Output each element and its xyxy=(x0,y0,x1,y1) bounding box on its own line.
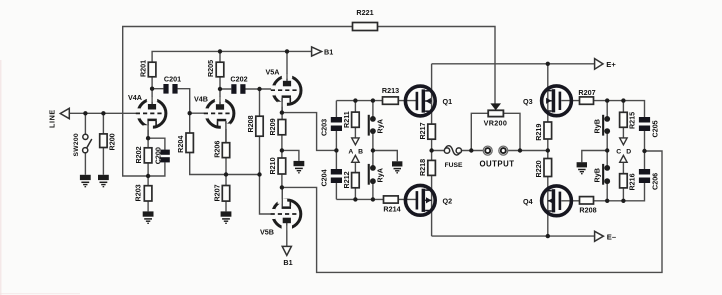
wire Q1 drain column / E+ feed xyxy=(431,64,433,124)
svg-text:VR200: VR200 xyxy=(484,119,507,128)
wire R201 to V4A plate xyxy=(151,77,153,104)
svg-text:R211: R211 xyxy=(342,111,351,128)
resistor R207 right xyxy=(578,88,595,105)
svg-text:OUTPUT: OUTPUT xyxy=(479,160,514,169)
wire V5A cathode to R209 xyxy=(281,98,283,120)
resistor R208 right xyxy=(579,197,596,215)
svg-text:R214: R214 xyxy=(383,204,400,213)
svg-text:FUSE: FUSE xyxy=(445,162,463,169)
resistor R218 xyxy=(418,159,436,176)
svg-text:E+: E+ xyxy=(606,60,616,69)
svg-text:RyB: RyB xyxy=(593,119,602,133)
wire C204 stems xyxy=(335,150,337,199)
wire RyA mute ground branch xyxy=(373,151,397,162)
svg-text:R208: R208 xyxy=(579,206,596,215)
wire C205 stem to mid node xyxy=(644,131,646,151)
wire bottom right rail R208 to C206 xyxy=(594,183,645,201)
wire R208 grid chain to V5B xyxy=(260,89,273,214)
wire R215 to test point C xyxy=(622,101,624,138)
wire R209 R210 node xyxy=(281,135,283,188)
svg-text:C200: C200 xyxy=(154,147,163,164)
resistor R215 xyxy=(620,112,637,129)
resistor R214 xyxy=(383,196,400,213)
capacitor C200 xyxy=(154,147,170,164)
capacitor C206 xyxy=(639,169,660,190)
svg-text:LINE: LINE xyxy=(48,109,57,128)
svg-text:C201: C201 xyxy=(164,75,181,84)
wire signal to C203/C204 midpoint xyxy=(282,113,337,151)
resistor R219 xyxy=(534,122,552,141)
wire V4B cathode chain xyxy=(226,121,260,211)
wire bottom mid rail to R214 xyxy=(336,198,416,200)
svg-text:R212: R212 xyxy=(342,171,351,188)
wire Q3 drain column xyxy=(547,64,549,122)
svg-text:B1: B1 xyxy=(324,47,333,56)
wire V5A plate to B1 rail xyxy=(286,51,288,80)
node test point C arrow xyxy=(620,138,627,145)
relay contact RyB upper xyxy=(593,115,611,136)
tube V5B inverted xyxy=(260,187,301,236)
svg-text:C205: C205 xyxy=(651,120,660,137)
wire RyB column segments xyxy=(606,101,608,201)
transistor Q1 xyxy=(405,86,452,116)
wire C206 stem to mid node xyxy=(644,151,646,169)
wire E- rail xyxy=(432,235,596,237)
node test point A arrow xyxy=(352,138,359,145)
node test point D arrow xyxy=(620,155,627,162)
wire E+ rail xyxy=(432,63,595,65)
wire Q3 source to R219 R220 Q4 xyxy=(547,139,549,236)
node B1 arrow top xyxy=(312,47,334,56)
svg-text:C D: C D xyxy=(616,149,633,156)
wire C201 coupling to V4B grid xyxy=(152,89,206,114)
wire ground branch V5A cathode divider xyxy=(282,150,299,161)
relay contact RyB lower xyxy=(593,164,611,185)
svg-text:R221: R221 xyxy=(356,8,373,17)
svg-text:V4A: V4A xyxy=(128,93,142,102)
node test point B arrow xyxy=(352,155,359,162)
svg-text:SW200: SW200 xyxy=(73,133,80,156)
resistor R211 xyxy=(342,111,359,128)
relay contact RyA lower xyxy=(368,164,385,185)
capacitor C203 xyxy=(320,117,342,136)
resistor R221 xyxy=(353,8,378,31)
svg-text:RyA: RyA xyxy=(376,168,385,182)
wire R204 branch xyxy=(190,113,226,174)
ground (V5A cathode divider) xyxy=(294,161,305,173)
wire V5B cathode up xyxy=(281,187,283,206)
resistor R203 xyxy=(134,184,152,201)
resistor R220 xyxy=(534,159,552,178)
transistor Q3 mirrored xyxy=(523,86,571,116)
wire C202 to V5A grid xyxy=(220,88,273,90)
wire LINE input xyxy=(69,112,138,114)
svg-text:R213: R213 xyxy=(382,86,399,95)
svg-text:R210: R210 xyxy=(268,157,277,174)
wire Q4 gate to R208 xyxy=(561,200,579,202)
wire VR200 loop xyxy=(471,113,520,150)
svg-text:R206: R206 xyxy=(212,141,221,158)
svg-text:R219: R219 xyxy=(534,124,543,141)
ground (SW200) xyxy=(80,175,91,187)
wire SW200 branch xyxy=(84,113,86,175)
edge tint bottom xyxy=(0,293,80,294)
svg-text:C206: C206 xyxy=(651,173,660,190)
node E+ arrow xyxy=(595,59,617,70)
wire top mid rail to R213 xyxy=(336,100,416,102)
svg-text:E–: E– xyxy=(607,232,616,241)
wire top right rail R207 to C205 xyxy=(594,101,645,117)
svg-text:Q3: Q3 xyxy=(523,97,533,106)
fuse FUSE xyxy=(444,146,463,169)
svg-text:V5B: V5B xyxy=(260,228,274,237)
svg-text:R216: R216 xyxy=(628,173,637,190)
relay contact RyA upper xyxy=(368,115,385,136)
svg-text:R204: R204 xyxy=(176,136,185,153)
svg-text:R208: R208 xyxy=(246,115,255,132)
svg-text:R220: R220 xyxy=(534,160,543,177)
svg-text:Q2: Q2 xyxy=(443,196,453,205)
capacitor C205 xyxy=(639,117,660,138)
tube V4B xyxy=(194,95,234,143)
svg-text:RyB: RyB xyxy=(593,168,602,182)
capacitor C202 xyxy=(230,75,247,94)
svg-text:C204: C204 xyxy=(320,169,329,186)
resistor R209 xyxy=(268,118,286,135)
switch SW200 xyxy=(83,134,92,153)
wire B1 rail top-left xyxy=(152,51,312,62)
resistor R205 xyxy=(206,60,224,77)
svg-text:C203: C203 xyxy=(320,119,329,136)
resistor R212 xyxy=(342,171,359,188)
node E- arrow xyxy=(595,231,616,241)
svg-text:R201: R201 xyxy=(138,60,147,77)
svg-text:R209: R209 xyxy=(268,118,277,135)
wire output feedback loop bottom xyxy=(282,151,662,272)
ground (RyA mute) xyxy=(392,161,402,173)
node OUTPUT jacks xyxy=(479,146,514,168)
node B1 arrow bottom xyxy=(282,246,292,267)
wire R218 to Q2 xyxy=(431,175,433,236)
svg-text:R215: R215 xyxy=(628,112,637,129)
wire feedback loop / top rail to VR200 wiper xyxy=(123,27,495,177)
wire RyB mute ground branch xyxy=(582,151,607,163)
svg-text:R207: R207 xyxy=(212,184,221,201)
wire Q1 source to fuse node xyxy=(431,139,433,160)
svg-text:Q1: Q1 xyxy=(443,97,453,106)
svg-text:B1: B1 xyxy=(283,258,292,267)
svg-text:C202: C202 xyxy=(230,75,247,84)
svg-text:R218: R218 xyxy=(418,159,427,176)
resistor R207 left xyxy=(212,184,229,201)
wire R200 branch xyxy=(102,113,104,175)
capacitor C204 xyxy=(320,169,342,187)
tube V5A xyxy=(266,68,301,113)
transistor Q4 mirrored xyxy=(523,186,571,216)
resistor R208 left xyxy=(246,115,263,136)
wire test point B to R212 xyxy=(354,162,356,199)
resistor R201 xyxy=(138,60,156,77)
svg-text:R200: R200 xyxy=(108,133,117,150)
resistor R210 xyxy=(268,157,286,174)
transistor Q2 xyxy=(405,185,452,215)
wire fuse to output rail xyxy=(432,150,548,152)
svg-text:R207: R207 xyxy=(578,88,595,97)
tube V4A xyxy=(128,93,166,138)
svg-text:R205: R205 xyxy=(206,60,215,77)
resistor R213 xyxy=(382,86,399,104)
svg-text:V4B: V4B xyxy=(194,95,208,104)
capacitor C201 xyxy=(163,75,181,94)
resistor R202 xyxy=(134,146,152,163)
svg-text:R217: R217 xyxy=(418,122,427,139)
ground (R200) xyxy=(98,175,109,187)
node LINE input arrow xyxy=(48,108,70,128)
wire R205 branch xyxy=(219,51,221,104)
ground (R203) xyxy=(143,211,154,223)
wire test point D to R216 xyxy=(622,162,624,201)
resistor R200 xyxy=(100,133,117,150)
wire V4A cathode chain xyxy=(148,121,165,211)
resistor R216 xyxy=(620,173,637,190)
svg-text:R203: R203 xyxy=(134,184,143,201)
wire RyA column segments xyxy=(372,101,374,200)
svg-text:RyA: RyA xyxy=(376,119,385,133)
edge tint left xyxy=(0,60,2,295)
wire C203 stems xyxy=(335,101,337,151)
resistor R206 xyxy=(212,141,229,158)
svg-text:V5A: V5A xyxy=(266,68,280,77)
wire V5B plate to B1 arrow xyxy=(286,223,288,246)
wire R211 to test point A xyxy=(354,101,356,138)
resistor R204 xyxy=(176,133,193,153)
potentiometer VR200 xyxy=(484,103,507,127)
wire Q3 gate to R207 xyxy=(561,100,579,102)
svg-text:Q4: Q4 xyxy=(523,197,533,206)
svg-text:A B: A B xyxy=(348,149,364,156)
ground (R207 left) xyxy=(221,211,232,223)
svg-text:R202: R202 xyxy=(134,146,143,163)
ground (RyB mute) xyxy=(577,162,587,174)
resistor R217 xyxy=(418,122,436,139)
